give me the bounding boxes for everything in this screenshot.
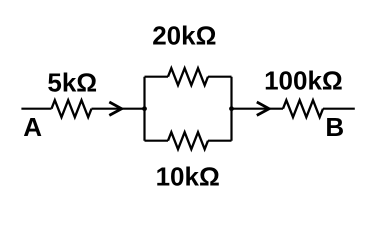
svg-text:10kΩ: 10kΩ — [156, 161, 220, 191]
wire: R1 to left node with current arrow — [92, 108, 145, 110]
current arrow 1 — [109, 102, 121, 115]
resistor R2 20kΩ — [168, 68, 208, 85]
resistor R4 100kΩ — [283, 100, 323, 117]
junction node (left) — [142, 106, 147, 111]
svg-text:5kΩ: 5kΩ — [47, 68, 97, 98]
svg-text:B: B — [325, 112, 344, 142]
wire: top branch left segment — [145, 76, 169, 78]
wire: right branch vertical — [230, 77, 232, 141]
wire: bottom branch right segment — [208, 140, 232, 142]
resistor R1 5kΩ — [52, 100, 92, 117]
svg-text:A: A — [23, 112, 42, 142]
svg-text:20kΩ: 20kΩ — [152, 21, 216, 51]
wire: terminal B lead — [323, 108, 355, 110]
svg-text:100kΩ: 100kΩ — [264, 65, 343, 95]
current arrow 2 — [257, 102, 269, 115]
wire: left branch vertical — [143, 77, 145, 141]
wire: terminal A lead — [21, 108, 51, 110]
wire: bottom branch left segment — [145, 140, 169, 142]
junction node (right) — [229, 106, 234, 111]
wire: right node to R4 with current arrow — [232, 108, 284, 110]
resistor R3 10kΩ — [168, 132, 208, 149]
wire: top branch right segment — [208, 76, 232, 78]
